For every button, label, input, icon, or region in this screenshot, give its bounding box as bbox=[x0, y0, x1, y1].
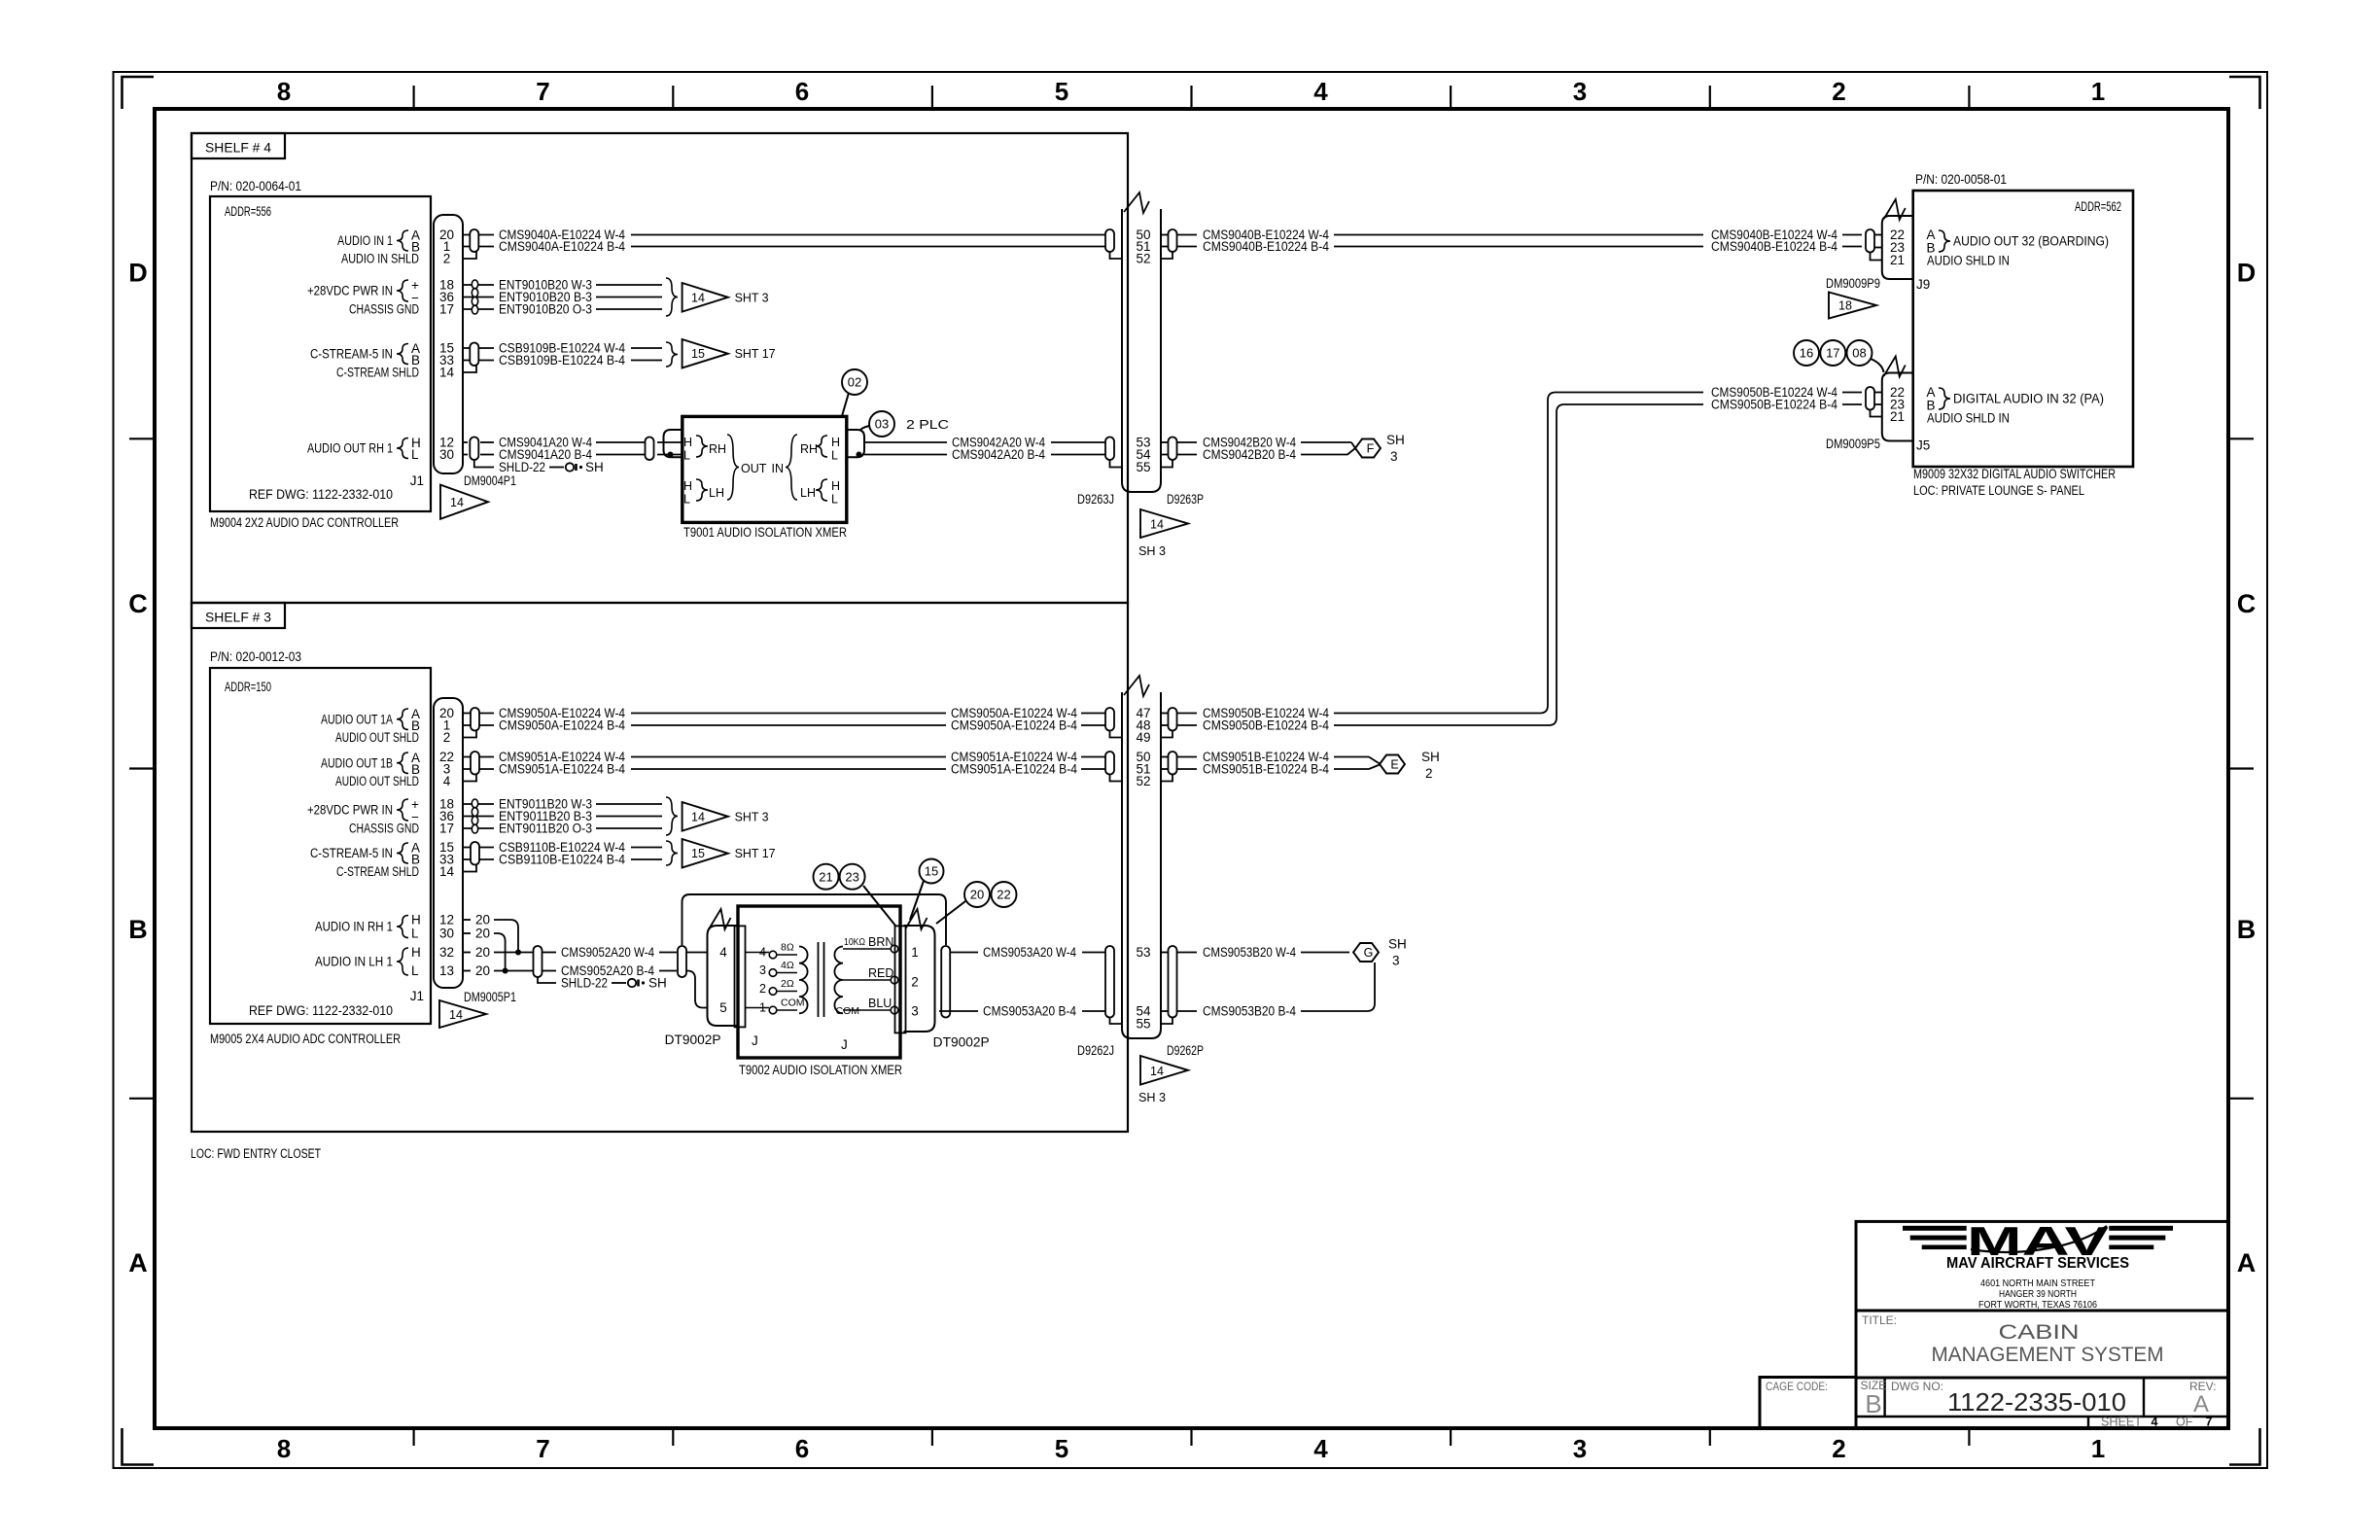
svg-text:CMS9040A-E10224 B-4: CMS9040A-E10224 B-4 bbox=[499, 239, 625, 254]
zone tick bottom bbox=[672, 1428, 674, 1446]
T9002 secondary coil bbox=[834, 947, 843, 1014]
svg-text:17: 17 bbox=[1826, 346, 1839, 361]
sheet-ref triangle 14 below DM9004P1 bbox=[440, 485, 488, 519]
wire pin36 ENT9010B20 B-3 bbox=[463, 297, 494, 298]
svg-text:J: J bbox=[841, 1037, 848, 1052]
svg-text:14: 14 bbox=[691, 810, 705, 823]
wire pin30 to ferrule bbox=[463, 454, 468, 456]
pin13 stub with gauge 20 bbox=[463, 970, 471, 972]
svg-text:10KΩ: 10KΩ bbox=[844, 936, 865, 948]
brace ENT9010 trio bbox=[666, 278, 678, 316]
wire pair CMS9050A-E10224 from J1 bbox=[463, 713, 494, 715]
balloon 08 bbox=[1847, 340, 1872, 366]
zone tick top bbox=[1190, 86, 1192, 109]
shield ferrule CMS9052 pair bbox=[534, 946, 542, 977]
svg-text:ADDR=562: ADDR=562 bbox=[2075, 199, 2121, 214]
shield ferrule T9002 output (tall) bbox=[941, 946, 950, 1018]
svg-text:3: 3 bbox=[911, 1004, 919, 1019]
svg-text:CMS9040B-E10224 B-4: CMS9040B-E10224 B-4 bbox=[1711, 239, 1837, 254]
MAV logo speed bars left bbox=[1903, 1226, 2173, 1249]
leader 08 to P5 bbox=[1871, 359, 1884, 372]
svg-text:SHT 17: SHT 17 bbox=[735, 347, 776, 361]
shield stub pin55 left bbox=[1110, 460, 1123, 468]
svg-text:L: L bbox=[683, 449, 690, 463]
svg-text:CMS9051A-E10224 B-4: CMS9051A-E10224 B-4 bbox=[951, 762, 1077, 777]
svg-text:L: L bbox=[411, 963, 419, 978]
zone tick bottom bbox=[931, 1428, 933, 1446]
svg-text:+28VDC PWR IN: +28VDC PWR IN bbox=[307, 803, 393, 818]
svg-text:SH: SH bbox=[1386, 433, 1405, 447]
svg-text:2: 2 bbox=[443, 730, 451, 745]
T9002 core bbox=[818, 942, 820, 1017]
shield ferrule P9 bbox=[1866, 229, 1874, 253]
svg-text:3: 3 bbox=[759, 963, 766, 977]
svg-text:RED: RED bbox=[868, 966, 893, 980]
balloon 15 (T9002) bbox=[920, 859, 944, 884]
leader 15 to break bbox=[910, 881, 924, 920]
svg-text:55: 55 bbox=[1136, 1017, 1150, 1032]
svg-text:AUDIO IN LH 1: AUDIO IN LH 1 bbox=[315, 955, 393, 969]
shield ferrule CMS9041 pair bbox=[470, 437, 478, 461]
svg-text:LH: LH bbox=[800, 486, 816, 500]
svg-text:8: 8 bbox=[277, 77, 291, 106]
svg-text:E: E bbox=[1390, 758, 1398, 772]
wire CMS9050B B-4 riser bbox=[1334, 404, 1703, 725]
zone tick top bbox=[1709, 86, 1711, 109]
svg-text:AUDIO SHLD IN: AUDIO SHLD IN bbox=[1927, 254, 2010, 268]
svg-text:J1: J1 bbox=[410, 989, 424, 1003]
zone tick bottom bbox=[1709, 1428, 1711, 1446]
wire CMS9042B20 W-4 to flag F bbox=[1161, 441, 1168, 443]
svg-text:D9263P: D9263P bbox=[1167, 492, 1204, 507]
svg-text:5: 5 bbox=[1055, 77, 1068, 106]
svg-text:A: A bbox=[2193, 1391, 2209, 1417]
wire CMS9052A20 W-4 bbox=[542, 952, 556, 954]
zone tick right bbox=[2228, 437, 2254, 439]
sheet-ref triangle 18 bbox=[1829, 293, 1876, 319]
vertical divider sheet row bbox=[2087, 1417, 2089, 1428]
pin12 stub with gauge 20 bbox=[463, 919, 471, 921]
T9002 primary coil bbox=[799, 947, 808, 1014]
wires CMS9050B-E10224 right of D9262 bbox=[1161, 713, 1168, 715]
svg-text:1: 1 bbox=[911, 945, 919, 960]
svg-text:RH: RH bbox=[800, 442, 818, 456]
balloon 16 bbox=[1794, 340, 1819, 366]
zone tick bottom bbox=[413, 1428, 415, 1446]
svg-text:4: 4 bbox=[719, 945, 727, 960]
svg-text:15: 15 bbox=[691, 347, 705, 361]
twisted wires symbol ENT9011 bbox=[472, 799, 477, 808]
off-sheet flag F SH 3 bbox=[1351, 442, 1355, 448]
svg-text:P/N: 020-0012-03: P/N: 020-0012-03 bbox=[210, 649, 301, 664]
svg-text:14: 14 bbox=[450, 496, 464, 509]
svg-text:M9009 32X32 DIGITAL AUDIO SWIT: M9009 32X32 DIGITAL AUDIO SWITCHER bbox=[1913, 467, 2116, 481]
svg-text:C: C bbox=[2237, 589, 2257, 618]
svg-text:21: 21 bbox=[1890, 409, 1905, 424]
junction dot pin30->13 bbox=[503, 968, 508, 974]
wire into T9001 RH L bbox=[657, 454, 682, 456]
svg-text:20: 20 bbox=[970, 888, 984, 902]
svg-text:7: 7 bbox=[536, 77, 549, 106]
balloon 02 bbox=[842, 369, 867, 395]
wire CMS9040B-E10224 W-4 (from D9263P) bbox=[1177, 234, 1197, 236]
brace CSB9110 pair bbox=[666, 841, 678, 865]
svg-text:B: B bbox=[128, 915, 148, 944]
svg-text:AUDIO OUT RH 1: AUDIO OUT RH 1 bbox=[307, 441, 393, 456]
svg-text:4: 4 bbox=[1313, 77, 1328, 106]
svg-text:20: 20 bbox=[475, 927, 490, 941]
svg-text:2Ω: 2Ω bbox=[781, 978, 794, 990]
wire pin17 ENT9011B20 O-3 bbox=[463, 827, 494, 829]
svg-text:L: L bbox=[683, 493, 690, 507]
wire pin20 to ferrule bbox=[463, 234, 494, 236]
wire pin33 CSB9110B-E10224 B-4 bbox=[463, 858, 494, 860]
svg-text:CMS9050B-E10224 B-4: CMS9050B-E10224 B-4 bbox=[1203, 718, 1329, 733]
svg-text:RH: RH bbox=[709, 442, 726, 456]
svg-text:14: 14 bbox=[439, 366, 455, 380]
svg-text:D9262P: D9262P bbox=[1167, 1043, 1204, 1058]
svg-text:COM: COM bbox=[836, 1005, 860, 1017]
svg-text:49: 49 bbox=[1136, 730, 1150, 745]
zone tick right bbox=[2228, 767, 2254, 769]
svg-text:14: 14 bbox=[1150, 1065, 1164, 1078]
shield stub pin21 P5 bbox=[1871, 410, 1882, 417]
balloon 21 bbox=[814, 864, 839, 890]
svg-text:CMS9042B20 B-4: CMS9042B20 B-4 bbox=[1203, 447, 1296, 462]
shield ferrule P5 bbox=[1866, 387, 1874, 410]
wire CMS9040B-E10224 B-4 (from D9263P) bbox=[1177, 246, 1197, 248]
zone tick bottom bbox=[1190, 1428, 1192, 1446]
svg-text:REF DWG: 1122-2332-010: REF DWG: 1122-2332-010 bbox=[249, 1003, 393, 1018]
balloon 03 with 2 PLC bbox=[869, 411, 894, 437]
svg-text:ADDR=556: ADDR=556 bbox=[225, 204, 271, 219]
svg-text:17: 17 bbox=[439, 822, 454, 836]
svg-text:2: 2 bbox=[1832, 77, 1845, 106]
wire pin15 CSB9109B-E10224 W-4 bbox=[463, 347, 494, 349]
cable break zigzag DT9002P left bbox=[710, 909, 731, 929]
svg-text:H: H bbox=[411, 913, 421, 927]
inner thick border bbox=[155, 109, 2228, 1428]
svg-text:DIGITAL AUDIO IN 32 (PA): DIGITAL AUDIO IN 32 (PA) bbox=[1953, 392, 2104, 406]
svg-text:AUDIO OUT SHLD: AUDIO OUT SHLD bbox=[335, 730, 419, 745]
zone tick right bbox=[2228, 1098, 2254, 1100]
svg-text:MANAGEMENT SYSTEM: MANAGEMENT SYSTEM bbox=[1932, 1344, 2164, 1366]
svg-text:LH: LH bbox=[709, 486, 724, 500]
svg-text:OUT: OUT bbox=[741, 462, 767, 475]
wires CMS9053B20 right of D9262 bbox=[1161, 952, 1168, 954]
corner trim mark top-left bbox=[122, 77, 155, 109]
svg-text:IN: IN bbox=[772, 462, 785, 475]
svg-text:SHLD-22: SHLD-22 bbox=[499, 460, 545, 474]
svg-text:B: B bbox=[1865, 1389, 1881, 1418]
svg-text:CMS9053B20 B-4: CMS9053B20 B-4 bbox=[1203, 1004, 1296, 1019]
wire pair CMS9051A-E10224 from J1 bbox=[463, 756, 494, 758]
svg-text:CMS9051A-E10224 B-4: CMS9051A-E10224 B-4 bbox=[499, 762, 625, 777]
svg-text:SH 3: SH 3 bbox=[1138, 1090, 1166, 1104]
junction dot T9001 right bbox=[857, 452, 862, 458]
svg-text:AUDIO OUT 32 (BOARDING): AUDIO OUT 32 (BOARDING) bbox=[1953, 234, 2109, 249]
svg-text:BRN: BRN bbox=[868, 935, 893, 949]
svg-text:D: D bbox=[2237, 259, 2257, 288]
svg-text:AUDIO IN RH 1: AUDIO IN RH 1 bbox=[315, 920, 393, 934]
svg-text:CSB9109B-E10224 B-4: CSB9109B-E10224 B-4 bbox=[499, 353, 625, 367]
svg-text:4: 4 bbox=[1313, 1434, 1328, 1463]
svg-text:H: H bbox=[683, 436, 692, 449]
svg-text:08: 08 bbox=[1852, 346, 1866, 361]
wire into T9001 RH H bbox=[657, 441, 682, 443]
title block horizontal divider (dwg/sheet) bbox=[1856, 1416, 2228, 1417]
T9001 left plug bump bbox=[664, 430, 682, 457]
svg-text:OF: OF bbox=[2176, 1416, 2193, 1429]
balloon 22 bbox=[992, 882, 1017, 907]
zone tick top bbox=[413, 86, 415, 109]
cable jacket arc over T9002 bbox=[682, 894, 947, 945]
balloon 23 bbox=[840, 864, 865, 890]
sheet flag 15 SHT 17 (CSB9109) bbox=[682, 339, 728, 367]
svg-text:D: D bbox=[128, 259, 148, 288]
off-sheet flag E SH 2 bbox=[1369, 757, 1380, 764]
connector DM9009P9 plug body bbox=[1882, 216, 1913, 279]
svg-text:DM9004P1: DM9004P1 bbox=[464, 473, 516, 488]
wire CMS9041A20 W-4 bbox=[480, 441, 494, 443]
svg-text:CMS9050A-E10224 B-4: CMS9050A-E10224 B-4 bbox=[499, 718, 625, 733]
shield ferrule D9262 53/54 left (tall) bbox=[1105, 946, 1114, 1018]
svg-text:J9: J9 bbox=[1916, 277, 1930, 292]
svg-text:CMS9053A20 B-4: CMS9053A20 B-4 bbox=[983, 1004, 1076, 1019]
sheet flag 14 SHT 3 (ENT9011) bbox=[682, 802, 728, 831]
wire CMS9050B W-4 riser bbox=[1334, 393, 1703, 714]
svg-text:SHT 17: SHT 17 bbox=[735, 847, 776, 860]
svg-text:L: L bbox=[411, 927, 419, 941]
svg-text:DWG NO:: DWG NO: bbox=[1891, 1380, 1943, 1393]
svg-text:SH: SH bbox=[1421, 750, 1440, 764]
SHELF # 4 label box bbox=[192, 133, 285, 158]
MAV logo swoosh bbox=[1971, 1226, 2107, 1252]
svg-text:J: J bbox=[752, 1033, 758, 1048]
junction dot T9001 left bbox=[668, 452, 674, 458]
wire pin1 to ferrule bbox=[463, 246, 494, 248]
svg-text:8: 8 bbox=[277, 1434, 291, 1463]
svg-text:CHASSIS GND: CHASSIS GND bbox=[349, 302, 419, 317]
svg-text:22: 22 bbox=[997, 888, 1010, 902]
wire CMS9053B20 B-4 up to flag G bbox=[1177, 1010, 1197, 1012]
svg-text:14: 14 bbox=[691, 291, 705, 304]
svg-text:C-STREAM-5 IN: C-STREAM-5 IN bbox=[310, 846, 393, 860]
svg-text:7: 7 bbox=[2206, 1416, 2213, 1429]
svg-text:2: 2 bbox=[1425, 766, 1433, 781]
connector D9262J/D9262P body bbox=[1122, 692, 1161, 1038]
svg-text:MAV AIRCRAFT SERVICES: MAV AIRCRAFT SERVICES bbox=[1946, 1255, 2129, 1272]
svg-text:DM9005P1: DM9005P1 bbox=[464, 990, 516, 1004]
leader 03 to plug bump bbox=[860, 426, 870, 431]
svg-text:21: 21 bbox=[819, 869, 832, 884]
svg-text:T9001 AUDIO ISOLATION XMER: T9001 AUDIO ISOLATION XMER bbox=[683, 525, 847, 540]
svg-text:C-STREAM-5 IN: C-STREAM-5 IN bbox=[310, 347, 393, 362]
wire T9001 out B (CMS9042A20 B-4) bbox=[864, 454, 947, 456]
T9002 secondary taps BRN/RED/BLU bbox=[843, 948, 891, 950]
svg-text:4: 4 bbox=[443, 774, 451, 788]
junction dot pin12->32 bbox=[515, 950, 521, 956]
zone tick left bbox=[129, 1098, 155, 1100]
svg-text:DT9002P: DT9002P bbox=[665, 1032, 721, 1047]
zone tick top bbox=[931, 86, 933, 109]
J receptacle strip T9002 left bbox=[735, 926, 746, 1027]
svg-text:G: G bbox=[1364, 946, 1374, 960]
svg-text:20: 20 bbox=[475, 913, 490, 927]
svg-text:P/N: 020-0064-01: P/N: 020-0064-01 bbox=[210, 179, 301, 193]
svg-text:M9005 2X4 AUDIO ADC CONTROLLER: M9005 2X4 AUDIO ADC CONTROLLER bbox=[210, 1032, 401, 1046]
cable break zigzag P9 bbox=[1884, 199, 1906, 220]
off-sheet flag G SH 3 bbox=[1353, 943, 1379, 962]
svg-text:B: B bbox=[2237, 915, 2257, 944]
svg-text:M9004 2X2 AUDIO DAC CONTROLLER: M9004 2X2 AUDIO DAC CONTROLLER bbox=[210, 515, 399, 530]
svg-text:15: 15 bbox=[925, 864, 938, 879]
svg-text:30: 30 bbox=[439, 447, 454, 462]
svg-text:3: 3 bbox=[1390, 449, 1398, 464]
balloon 20 bbox=[964, 882, 990, 907]
CAGE CODE box bbox=[1760, 1378, 1856, 1429]
zone tick top bbox=[1968, 86, 1970, 109]
svg-text:LOC: PRIVATE LOUNGE S- PANEL: LOC: PRIVATE LOUNGE S- PANEL bbox=[1913, 483, 2084, 498]
unit M9005 2X4 AUDIO ADC CONTROLLER box bbox=[210, 668, 431, 1024]
svg-text:3: 3 bbox=[1573, 77, 1587, 106]
shield ferrule CSB9110 pair bbox=[471, 842, 479, 865]
SHELF # 3 boundary box bbox=[192, 603, 1128, 1132]
wire T9001 out W (CMS9042A20 W-4) bbox=[864, 441, 947, 443]
vertical divider SIZE/DWG bbox=[1883, 1378, 1885, 1417]
wire CMS9052A20 B-4 bbox=[542, 970, 556, 972]
wire into DT9002P pin4 bbox=[686, 952, 708, 954]
svg-text:1: 1 bbox=[2091, 77, 2105, 106]
connector DM9004P1 (J1 plug, M9004) bbox=[434, 215, 463, 473]
svg-text:REF DWG: 1122-2332-010: REF DWG: 1122-2332-010 bbox=[249, 487, 393, 502]
wire pin18 ENT9010B20 W-3 bbox=[463, 284, 494, 286]
svg-text:03: 03 bbox=[875, 417, 889, 432]
svg-text:14: 14 bbox=[1150, 518, 1164, 532]
svg-text:C-STREAM SHLD: C-STREAM SHLD bbox=[336, 366, 419, 380]
svg-text:AUDIO SHLD IN: AUDIO SHLD IN bbox=[1927, 411, 2010, 426]
MAV logo speed bars right bbox=[2109, 1226, 2173, 1231]
svg-text:1122-2335-010: 1122-2335-010 bbox=[1947, 1387, 2126, 1417]
svg-text:7: 7 bbox=[536, 1434, 549, 1463]
svg-text:AUDIO OUT 1A: AUDIO OUT 1A bbox=[321, 713, 393, 727]
connector DT9002P right plug bbox=[904, 926, 935, 1032]
svg-text:FORT WORTH, TEXAS 76106: FORT WORTH, TEXAS 76106 bbox=[1978, 1299, 2097, 1311]
svg-text:5: 5 bbox=[1055, 1434, 1068, 1463]
svg-text:CMS9053B20 W-4: CMS9053B20 W-4 bbox=[1203, 945, 1296, 960]
shield ferrule T9001 input side bbox=[646, 437, 654, 461]
shield ferrule T9002 input bbox=[678, 946, 686, 977]
zone tick bottom bbox=[1450, 1428, 1452, 1446]
wire pin33 CSB9109B-E10224 B-4 bbox=[463, 360, 494, 362]
svg-text:F: F bbox=[1367, 442, 1375, 456]
leader 21/23 to J strip bbox=[863, 886, 895, 926]
svg-text:H: H bbox=[831, 436, 840, 449]
svg-text:21: 21 bbox=[1890, 253, 1905, 267]
wire into DT9002P pin5 (jog down) bbox=[686, 971, 708, 1008]
svg-text:A: A bbox=[128, 1248, 148, 1277]
svg-text:AUDIO IN 1: AUDIO IN 1 bbox=[337, 233, 393, 248]
connector D9263J/D9263P body bbox=[1122, 209, 1161, 492]
svg-text:SHELF # 4: SHELF # 4 bbox=[205, 141, 272, 156]
svg-text:C: C bbox=[128, 589, 148, 618]
wire pin18 ENT9011B20 W-3 bbox=[463, 803, 494, 805]
svg-text:DT9002P: DT9002P bbox=[933, 1035, 990, 1050]
shield ferrule CMS9040A pair bbox=[470, 229, 478, 252]
svg-text:COM: COM bbox=[781, 997, 805, 1009]
shield stub pin52 right bbox=[1161, 252, 1172, 259]
cable break zigzag P5 bbox=[1884, 357, 1906, 377]
svg-text:32: 32 bbox=[439, 945, 454, 960]
svg-text:CSB9110B-E10224 B-4: CSB9110B-E10224 B-4 bbox=[499, 853, 625, 867]
svg-text:LOC: FWD ENTRY CLOSET: LOC: FWD ENTRY CLOSET bbox=[191, 1146, 321, 1161]
title block horizontal divider (title/dwg) bbox=[1856, 1377, 2228, 1380]
title block outline bbox=[1856, 1221, 2228, 1428]
svg-text:2: 2 bbox=[911, 975, 919, 990]
svg-text:5: 5 bbox=[719, 1000, 727, 1015]
vertical divider DWG/REV bbox=[2143, 1378, 2145, 1417]
svg-text:AUDIO IN SHLD: AUDIO IN SHLD bbox=[341, 252, 419, 266]
shield ferrule D9263 50/51 left bbox=[1105, 229, 1114, 252]
svg-text:53: 53 bbox=[1136, 945, 1150, 960]
sheet flag 14 SHT 3 (ENT9010) bbox=[682, 283, 728, 312]
svg-text:SH: SH bbox=[1388, 937, 1407, 952]
shield ferrule D9263 50/51 right bbox=[1161, 234, 1168, 236]
leader 02 to T9001 corner bbox=[842, 393, 849, 416]
shield drain SHLD-22 (M9005) bbox=[538, 977, 556, 983]
svg-text:SHEET: SHEET bbox=[2101, 1416, 2142, 1429]
twisted wires symbol ENT9010 bbox=[472, 280, 477, 289]
svg-text:CABIN: CABIN bbox=[1999, 1321, 2080, 1344]
svg-text:CMS9052A20 W-4: CMS9052A20 W-4 bbox=[561, 945, 654, 960]
svg-text:6: 6 bbox=[795, 1434, 809, 1463]
wires CMS9051B-E10224 right of D9262 bbox=[1161, 756, 1168, 758]
svg-text:L: L bbox=[411, 447, 419, 462]
cable break zigzag D9262 bbox=[1124, 676, 1149, 696]
svg-text:H: H bbox=[683, 479, 692, 493]
transformer T9001 AUDIO ISOLATION XMER box bbox=[682, 416, 847, 522]
svg-text:ENT9011B20 O-3: ENT9011B20 O-3 bbox=[499, 822, 592, 836]
wire CMS9042B20 B-4 to flag F bbox=[1177, 454, 1197, 456]
svg-text:ADDR=150: ADDR=150 bbox=[225, 680, 271, 694]
svg-text:DM9009P5: DM9009P5 bbox=[1826, 437, 1880, 451]
sheet-ref triangle 14 below DM9005P1 bbox=[439, 1000, 486, 1028]
svg-text:SH 3: SH 3 bbox=[1138, 543, 1166, 558]
zone tick left bbox=[129, 437, 155, 439]
svg-text:13: 13 bbox=[439, 963, 454, 978]
svg-text:CMS9040B-E10224 B-4: CMS9040B-E10224 B-4 bbox=[1203, 239, 1329, 254]
shield stub pin21 P9 bbox=[1871, 253, 1882, 261]
svg-text:CMS9053A20 W-4: CMS9053A20 W-4 bbox=[983, 945, 1076, 960]
svg-text:SHT 3: SHT 3 bbox=[735, 291, 769, 304]
wire pin17 ENT9010B20 O-3 bbox=[463, 308, 494, 310]
wire pin12 to ferrule bbox=[463, 441, 468, 443]
shield stub pin14 (M9005) bbox=[463, 865, 476, 872]
wire CMS9041A20 B-4 bbox=[480, 454, 494, 456]
cable break zigzag DT9002P right bbox=[906, 909, 927, 929]
svg-text:A: A bbox=[2237, 1248, 2257, 1277]
svg-text:SH: SH bbox=[585, 460, 604, 474]
shield ferrule CSB9109 pair bbox=[470, 343, 478, 367]
svg-text:CMS9050B-E10224 B-4: CMS9050B-E10224 B-4 bbox=[1711, 398, 1837, 412]
svg-text:P/N: 020-0058-01: P/N: 020-0058-01 bbox=[1915, 172, 2007, 187]
svg-text:C-STREAM SHLD: C-STREAM SHLD bbox=[336, 864, 419, 879]
svg-text:6: 6 bbox=[795, 77, 809, 106]
svg-text:55: 55 bbox=[1136, 460, 1150, 474]
T9001 right plug bump bbox=[847, 430, 864, 457]
wire pin36 ENT9011B20 B-3 bbox=[463, 816, 494, 818]
svg-text:CMS9051B-E10224 B-4: CMS9051B-E10224 B-4 bbox=[1203, 762, 1329, 777]
